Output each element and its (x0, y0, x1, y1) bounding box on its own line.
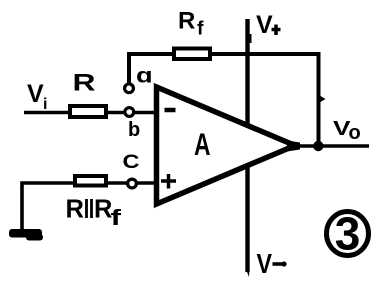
svg-text:f: f (111, 205, 122, 230)
svg-text:R: R (73, 70, 96, 97)
svg-text:C: C (123, 151, 140, 173)
svg-text:V: V (27, 80, 44, 108)
svg-text:A: A (194, 126, 211, 162)
svg-text:V: V (256, 11, 273, 39)
svg-text:ɑ: ɑ (136, 64, 153, 87)
svg-text:R: R (178, 8, 195, 35)
svg-text:o: o (349, 122, 361, 144)
svg-text:3: 3 (335, 208, 361, 260)
svg-text:f: f (197, 18, 204, 40)
svg-text:b: b (128, 119, 140, 141)
svg-text:V: V (257, 248, 273, 279)
svg-text:R: R (66, 196, 84, 224)
svg-text:i: i (43, 96, 47, 113)
